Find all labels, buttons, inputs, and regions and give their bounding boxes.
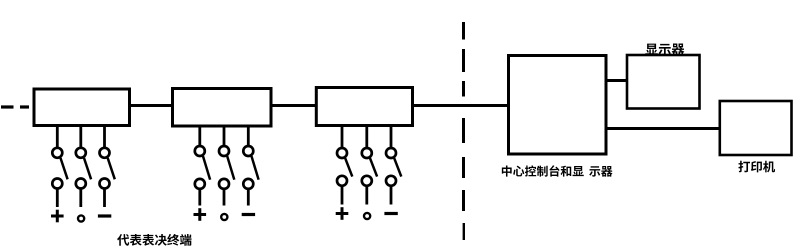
terminal box 1 bbox=[34, 89, 130, 126]
label: 代表表决终端 (voting terminals) bbox=[117, 234, 191, 246]
wire: box2 to box3 bbox=[271, 104, 317, 107]
switch S3c (- contact) bbox=[384, 126, 401, 214]
terminal box 3 bbox=[316, 88, 412, 126]
printer box bbox=[720, 101, 792, 155]
switch S1a (+ contact) bbox=[51, 126, 68, 223]
wire: box3 to central console (crosses boundary) bbox=[413, 104, 510, 107]
switch S3b (o contact) bbox=[362, 126, 377, 220]
switch S3a (+ contact) bbox=[336, 126, 353, 220]
label: 中心控制台和显 示器 (central control console and display) bbox=[502, 165, 613, 176]
display box bbox=[627, 55, 700, 109]
switch S2c (- contact) bbox=[242, 126, 259, 215]
boundary: dashed separator line bbox=[462, 22, 465, 240]
wire: incoming dashed bus stub bbox=[1, 105, 29, 108]
terminal box 2 bbox=[173, 89, 272, 127]
control console box bbox=[509, 56, 607, 155]
switch S2a (+ contact) bbox=[194, 126, 211, 221]
wire: console to printer bbox=[606, 127, 721, 130]
switch S1b (o contact) bbox=[76, 126, 91, 222]
wire: box1 to box2 bbox=[130, 104, 174, 107]
wire: console to display bbox=[606, 79, 628, 82]
switch S1c (- contact) bbox=[98, 126, 115, 217]
label: 显示器 (display) bbox=[645, 44, 684, 56]
switch S2b (o contact) bbox=[219, 126, 234, 220]
label: 打印机 (printer) bbox=[738, 161, 775, 173]
